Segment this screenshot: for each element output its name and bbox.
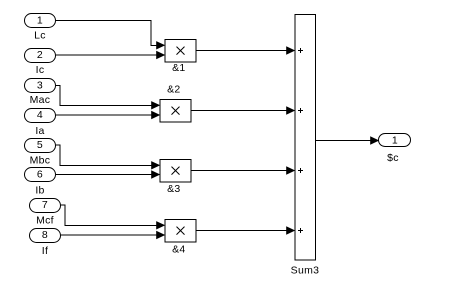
svg-text:Mbc: Mbc [30,155,51,167]
input port 2 [25,49,56,63]
arrowhead into Sum3 input 3 [286,166,295,174]
wire from port 5 to product &amp;3 input 1 [56,145,152,165]
svg-text:If: If [42,245,48,257]
svg-text:6: 6 [37,169,43,181]
wire from port 7 to product &amp;4 input 1 [61,205,157,225]
wire from &amp;3 output to Sum3 input 3 [191,170,287,172]
output port 1 [379,134,411,147]
svg-text:Mcf: Mcf [36,215,54,227]
svg-text:7: 7 [42,199,48,211]
arrowhead into &amp;1 input 1 [156,41,165,49]
arrowhead into &amp;1 input 2 [156,51,165,59]
input port 7 [30,199,61,213]
plus sign Sum3 input 2 [298,108,303,113]
product block &amp;3 [160,160,191,183]
arrowhead into Sum3 input 4 [286,226,295,234]
wire from port 2 to product &amp;1 input 2 [56,54,157,56]
svg-text:1: 1 [392,135,398,147]
plus sign Sum3 input 3 [298,168,303,173]
wire from &amp;1 output to Sum3 input 1 [196,50,287,52]
arrowhead into Sum3 input 1 [286,46,295,54]
plus sign Sum3 input 4 [298,228,303,233]
arrowhead into Sum3 input 2 [286,106,295,114]
arrowhead into output port 1 [370,136,379,144]
wire from port 4 to product &amp;2 input 2 [56,114,152,116]
wire from &amp;2 output to Sum3 input 2 [191,110,287,112]
arrowhead into &amp;2 input 1 [151,101,160,109]
input port 4 [25,109,56,123]
sum block Sum3 [295,15,316,261]
svg-text:Lc: Lc [34,30,46,42]
svg-text:Ib: Ib [35,185,44,197]
svg-text:8: 8 [42,229,48,241]
product block &amp;2 [160,100,191,123]
wire from port 6 to product &amp;3 input 2 [56,174,152,176]
input port 1 [25,14,56,28]
wire from port 1 to product &amp;1 input 1 [56,21,157,46]
input port 3 [25,79,56,93]
svg-text:Mac: Mac [30,94,51,106]
svg-text:Ic: Ic [36,64,45,76]
svg-text:1: 1 [37,15,43,27]
wire from port 8 to product &amp;4 input 2 [61,234,157,236]
svg-text:3: 3 [37,80,43,92]
input port 8 [30,229,61,243]
svg-text:Sum3: Sum3 [291,264,320,276]
arrowhead into &amp;2 input 2 [151,111,160,119]
input port 6 [25,168,56,182]
product block &amp;4 [165,220,196,243]
input port 5 [25,139,56,153]
svg-text:&4: &4 [172,243,185,255]
svg-text:4: 4 [37,109,43,121]
arrowhead into &amp;3 input 2 [151,170,160,178]
svg-text:&3: &3 [167,183,180,195]
svg-text:Ia: Ia [35,125,44,137]
svg-text:2: 2 [37,49,43,61]
arrowhead into &amp;4 input 1 [156,221,165,229]
product block &amp;1 [165,40,196,63]
svg-text:5: 5 [37,139,43,151]
wire from Sum3 output to output port 1 [316,140,372,142]
arrowhead into &amp;4 input 2 [156,231,165,239]
svg-text:&2: &2 [167,83,180,95]
plus sign Sum3 input 1 [298,48,303,53]
wire from port 3 to product &amp;2 input 1 [56,86,152,106]
svg-text:$c: $c [387,152,399,164]
wire from &amp;4 output to Sum3 input 4 [196,230,287,232]
arrowhead into &amp;3 input 1 [151,161,160,169]
svg-text:&1: &1 [172,62,185,74]
